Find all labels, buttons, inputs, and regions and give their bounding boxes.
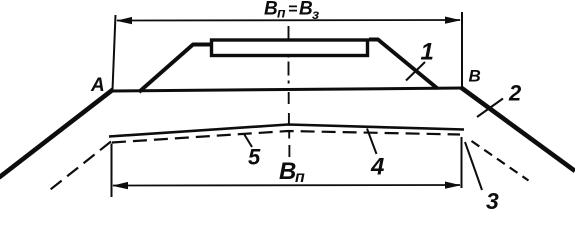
leader for 5 (244, 134, 252, 147)
dashed subgrade line (5) (112, 131, 460, 143)
leader for 2 (477, 99, 503, 118)
bottom dimension line Вп (113, 184, 460, 187)
top dimension extension line right (461, 12, 463, 87)
svg-text:А: А (90, 75, 105, 96)
ballast right slope (369, 40, 438, 89)
leader for 1 (406, 62, 425, 81)
bottom dimension left arrowhead (112, 182, 128, 189)
top dimension line Вп=Вз (117, 19, 460, 22)
leader for 3 (465, 142, 482, 190)
svg-text:п: п (295, 169, 305, 186)
svg-text:2: 2 (508, 81, 522, 106)
bottom dimension extension line left (111, 144, 113, 198)
top dimension right arrowhead (445, 17, 461, 24)
leader for 4 (367, 129, 377, 155)
svg-text:1: 1 (421, 39, 434, 66)
svg-text:В: В (469, 67, 481, 86)
svg-text:5: 5 (248, 145, 261, 170)
embankment right slope (461, 88, 575, 172)
svg-text:з: з (312, 6, 319, 22)
drainage prism top line (4) (109, 125, 464, 137)
svg-text:В: В (264, 0, 278, 20)
svg-text:В: В (299, 0, 313, 20)
bottom dimension right arrowhead (445, 182, 461, 189)
bottom dimension extension line right (461, 137, 463, 188)
ballast left slope (139, 45, 211, 93)
svg-text:В: В (279, 158, 296, 185)
svg-text:п: п (277, 5, 286, 21)
right dashed slope (472, 141, 529, 181)
svg-text:3: 3 (486, 188, 499, 211)
left dashed slope (46, 142, 111, 194)
sleeper rectangle (212, 40, 368, 56)
embankment left slope (0, 90, 113, 178)
svg-text:4: 4 (370, 154, 384, 181)
top dimension left arrowhead (116, 17, 132, 24)
top dimension extension line left (113, 15, 116, 90)
centerline (track axis, dash-dot) (288, 26, 291, 157)
svg-text:=: = (288, 1, 297, 18)
platform line A-B (110, 88, 463, 91)
